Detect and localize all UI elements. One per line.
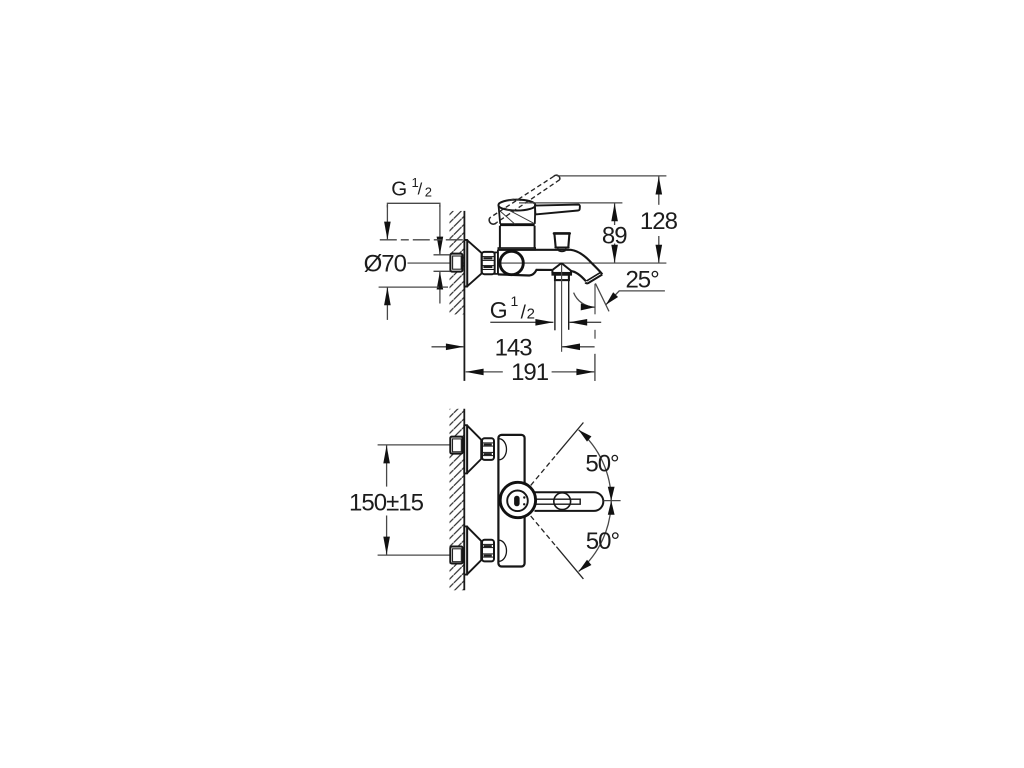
- svg-text:G: G: [490, 297, 508, 323]
- svg-text:1: 1: [511, 293, 519, 309]
- svg-text:191: 191: [511, 359, 549, 386]
- svg-text:2: 2: [425, 185, 432, 200]
- svg-text:89: 89: [602, 222, 627, 249]
- svg-text:128: 128: [640, 208, 678, 235]
- svg-text:G: G: [391, 178, 407, 201]
- svg-text:50°: 50°: [585, 450, 619, 477]
- svg-text:25°: 25°: [625, 266, 659, 293]
- svg-text:150±15: 150±15: [349, 489, 424, 516]
- svg-text:/: /: [418, 181, 423, 199]
- svg-text:50°: 50°: [586, 528, 620, 555]
- svg-text:2: 2: [527, 306, 535, 323]
- svg-text:Ø70: Ø70: [364, 250, 407, 277]
- svg-text:143: 143: [495, 334, 533, 361]
